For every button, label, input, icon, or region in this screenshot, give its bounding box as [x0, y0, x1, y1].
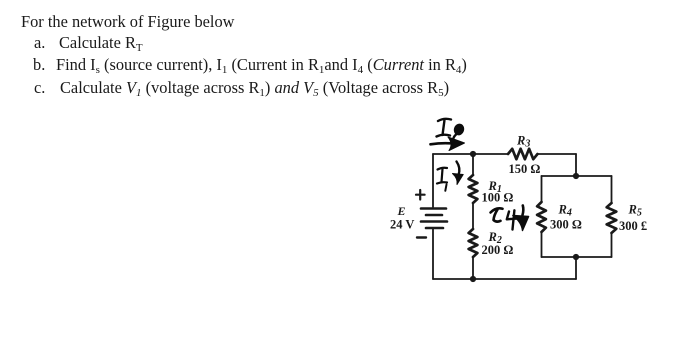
junction node bottom of R2 [470, 276, 476, 282]
wire middle branch lower [472, 257, 474, 279]
svg-text:300 Ω: 300 Ω [550, 217, 582, 231]
svg-text:100 Ω: 100 Ω [482, 190, 514, 204]
wire left rail lower (battery bottom lead) [432, 229, 434, 279]
svg-text:24 V: 24 V [390, 217, 414, 231]
handwritten I1 annotation with down arrow [437, 162, 463, 191]
wire right drop to bridge [575, 154, 577, 176]
wire bridge bottom rail [542, 256, 612, 258]
svg-text:R5: R5 [628, 202, 642, 218]
junction node bridge top [573, 173, 579, 179]
wire middle branch between R1 and R2 [472, 203, 474, 229]
svg-text:R4: R4 [558, 202, 572, 218]
wire top rail [433, 153, 576, 155]
wire left rail upper (battery top lead) [432, 154, 434, 207]
wire bridge top rail [542, 175, 612, 177]
handwritten Is annotation with right arrow [431, 119, 466, 151]
wire bridge bottom feed [575, 257, 577, 279]
wire bottom rail [433, 278, 576, 280]
wire bridge left rail upper [541, 176, 543, 202]
resistor R3 zigzag [508, 149, 538, 159]
battery E plates [421, 209, 447, 229]
resistor R1 zigzag [469, 175, 478, 203]
svg-text:R3: R3 [516, 133, 530, 149]
wire bridge right rail lower [611, 233, 613, 257]
wire bridge left rail lower [541, 232, 543, 257]
wire bridge right rail upper [611, 176, 613, 203]
problem statement text [21, 12, 235, 32]
svg-text:150 Ω: 150 Ω [509, 162, 541, 176]
handwritten I4 annotation with down arrow [491, 206, 529, 231]
svg-text:E: E [397, 204, 406, 218]
battery minus sign [417, 236, 426, 238]
wire middle branch upper [472, 154, 474, 175]
svg-text:300 £: 300 £ [619, 219, 647, 233]
resistor R2 zigzag [469, 229, 478, 257]
junction node top of R1 [470, 151, 476, 157]
junction node bridge bottom [573, 254, 579, 260]
resistor R4 zigzag [537, 202, 546, 232]
resistor R5 zigzag [607, 203, 617, 233]
svg-text:200 Ω: 200 Ω [482, 243, 514, 257]
battery plus sign [416, 190, 425, 200]
